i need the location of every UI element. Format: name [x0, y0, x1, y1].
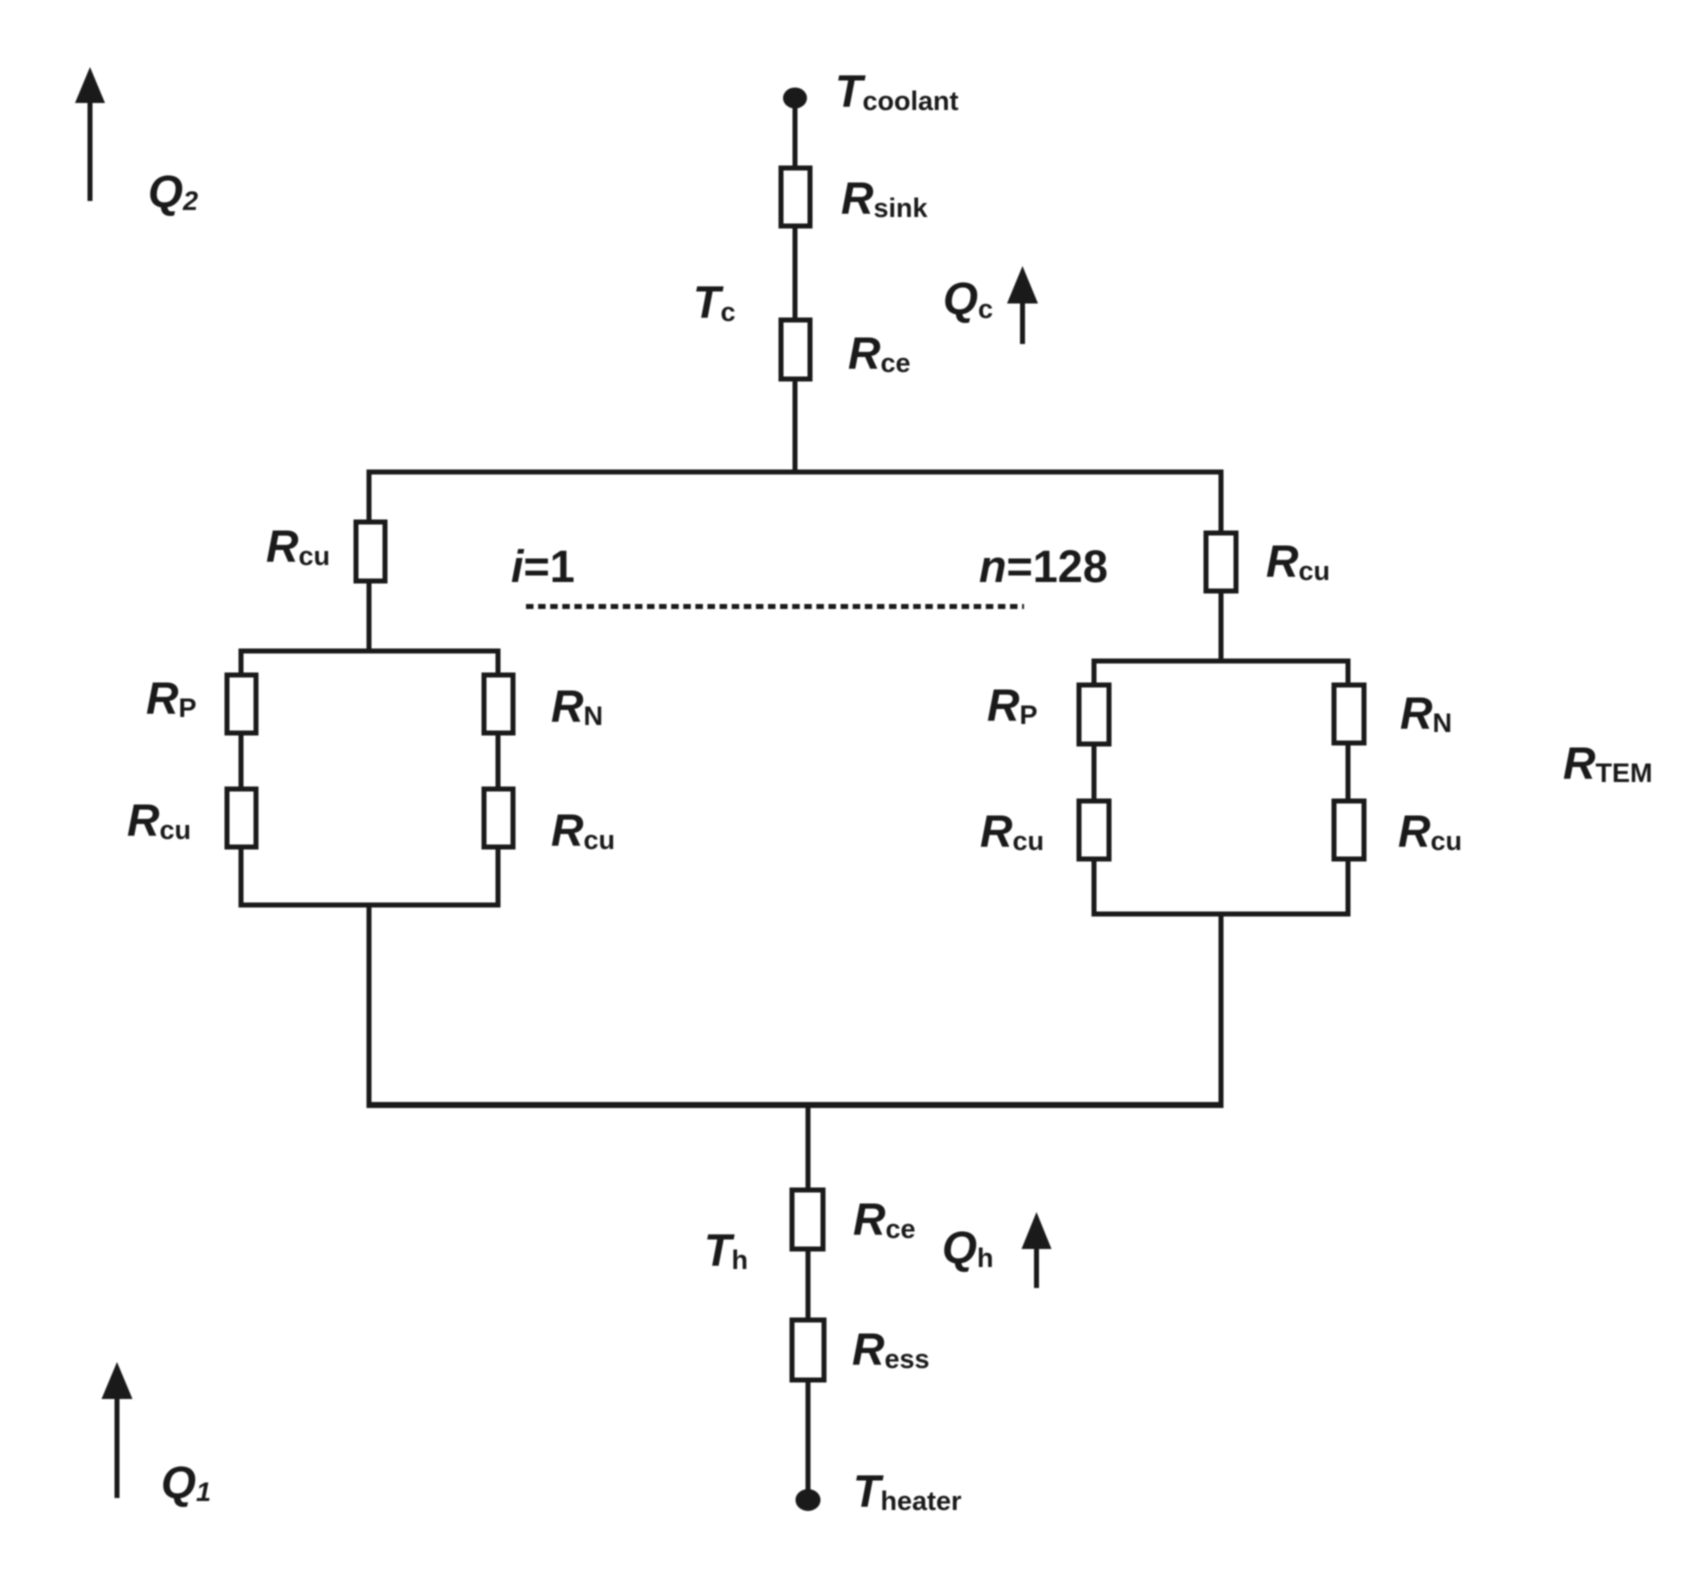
wire — [806, 1380, 811, 1500]
wire — [367, 905, 372, 1105]
wire right cell top — [1092, 659, 1351, 664]
wire — [1219, 472, 1224, 533]
svg-text:n=128: n=128 — [979, 541, 1108, 592]
wire left cell bottom — [239, 903, 501, 908]
arrow Q2 — [75, 67, 105, 201]
wire — [1219, 591, 1224, 664]
wire — [239, 733, 244, 789]
wire right cell bottom — [1092, 912, 1351, 917]
wire — [239, 651, 244, 675]
wire — [496, 847, 501, 908]
wire — [806, 1249, 811, 1320]
wire left cell top — [239, 649, 501, 654]
wire — [1219, 914, 1224, 1105]
wire — [1346, 743, 1351, 801]
arrow Qh — [1022, 1212, 1052, 1288]
node Theater — [796, 1489, 821, 1511]
resistor Rcu (right cell, right leg) — [1334, 801, 1364, 859]
resistor Ress — [792, 1320, 824, 1380]
resistor Rsink — [781, 168, 810, 226]
resistor RP (left cell) — [227, 675, 256, 733]
wire — [806, 1105, 811, 1190]
node Tcoolant — [783, 88, 807, 109]
resistor Rcu (right top) — [1206, 533, 1236, 591]
resistor Rcu (left top) — [356, 522, 385, 581]
wire — [1346, 859, 1351, 917]
wire — [1346, 661, 1351, 685]
resistor RN (left cell) — [484, 675, 513, 733]
wire — [367, 472, 372, 522]
wire — [496, 651, 501, 675]
resistor Rce (hot side) — [792, 1190, 823, 1249]
resistor RN (right cell) — [1334, 685, 1364, 743]
svg-text:i=1: i=1 — [511, 541, 575, 592]
resistor Rce (cold side) — [781, 320, 810, 379]
dashed separator i=1 ... n=128 — [526, 604, 1024, 609]
wire — [1092, 744, 1097, 801]
wire — [793, 379, 798, 472]
wire — [239, 847, 244, 908]
wire — [367, 581, 372, 654]
resistor Rcu (left cell, right leg) — [484, 789, 513, 847]
wire — [793, 226, 798, 320]
wire — [496, 733, 501, 789]
resistor Rcu (right cell, left leg) — [1079, 801, 1109, 859]
wire — [1092, 859, 1097, 917]
resistor RP (right cell) — [1079, 685, 1109, 744]
wire — [1092, 661, 1097, 685]
wire bottom bus — [367, 1102, 1224, 1108]
arrow Q1 — [102, 1362, 133, 1498]
arrow Qc — [1007, 266, 1038, 344]
wire — [793, 98, 798, 168]
wire top bus — [367, 470, 1224, 475]
resistor Rcu (left cell, left leg) — [227, 789, 256, 847]
